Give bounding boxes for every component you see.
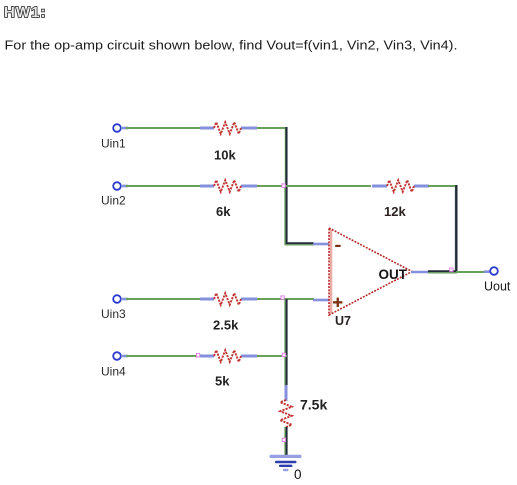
op-amp U7	[329, 228, 412, 315]
svg-text:2.5k: 2.5k	[213, 318, 239, 333]
ground symbol 0	[270, 455, 302, 471]
wire R2 through node A to R5	[257, 185, 371, 187]
pin stub non-inverting input	[313, 299, 329, 302]
junction node A	[282, 184, 285, 187]
value label 10k	[214, 148, 236, 163]
pin stub output	[411, 271, 429, 274]
svg-text:5k: 5k	[215, 374, 230, 389]
wire node B vertical down	[285, 299, 287, 385]
port Uout	[484, 267, 498, 275]
svg-text:10k: 10k	[214, 148, 236, 163]
port Uin4	[113, 352, 128, 360]
problem statement text	[5, 39, 458, 53]
value label 7.5k	[300, 397, 327, 413]
wire 7.5k to ground	[285, 427, 287, 456]
svg-text:For the op-amp circuit shown b: For the op-amp circuit shown below, find…	[5, 39, 458, 53]
wire Uin1 to R1	[126, 127, 201, 129]
op-amp minus mark	[335, 245, 340, 247]
svg-text:HW1:: HW1:	[4, 4, 47, 21]
resistor 7.5k (vertical)	[280, 385, 292, 427]
resistor 2.5k	[200, 293, 257, 305]
op-amp plus mark	[333, 298, 342, 307]
title HW1	[4, 4, 47, 21]
ground net label 0	[294, 467, 302, 482]
svg-text:7.5k: 7.5k	[300, 397, 327, 413]
junction node B	[281, 296, 284, 299]
resistor 6k	[200, 180, 257, 192]
label Uin3	[101, 307, 126, 321]
svg-text:0: 0	[294, 467, 302, 482]
wire Uin4 to R4	[126, 355, 199, 357]
wire Uin3 to R3	[126, 298, 201, 300]
value label 5k	[215, 374, 230, 389]
label Uin1	[101, 137, 126, 151]
wire node A vertical down to inverting branch	[285, 127, 287, 245]
wire output to feedback node	[428, 271, 457, 273]
svg-text:U7: U7	[335, 314, 351, 328]
svg-text:OUT: OUT	[379, 267, 408, 282]
svg-text:Uin3: Uin3	[101, 307, 126, 321]
port Uin2	[113, 182, 128, 190]
junction above ground	[282, 438, 285, 441]
svg-text:Uin4: Uin4	[101, 365, 126, 379]
value label 6k	[216, 204, 231, 219]
value label 2.5k	[213, 318, 239, 333]
wire R5 to feedback corner	[428, 185, 457, 187]
wire feedback vertical down to output node	[455, 185, 456, 272]
port Uin3	[113, 295, 128, 303]
junction wire end Uin4	[196, 354, 199, 357]
port Uin1	[113, 124, 128, 132]
wire output node to Uout	[456, 271, 485, 273]
resistor 5k	[200, 350, 257, 362]
svg-text:12k: 12k	[384, 204, 406, 219]
wire Uin2 to R2	[126, 185, 201, 187]
label Uin4	[101, 365, 126, 379]
junction node C	[282, 353, 285, 356]
svg-text:Uin2: Uin2	[101, 194, 126, 208]
label Uout	[484, 280, 511, 294]
junction output node	[450, 268, 453, 271]
wire R3 through node B to non-inverting input	[257, 298, 314, 300]
resistor 12k (feedback)	[372, 180, 429, 192]
op-amp reference U7	[335, 314, 351, 328]
pin stub inverting input	[313, 243, 329, 246]
wire R1 to node A	[257, 127, 287, 129]
op-amp OUT pin label	[379, 267, 408, 282]
wire node A corner to inverting input	[285, 243, 314, 245]
resistor 10k	[200, 122, 257, 134]
svg-text:Uin1: Uin1	[101, 137, 126, 151]
svg-text:6k: 6k	[216, 204, 231, 219]
svg-text:Uout: Uout	[484, 280, 511, 294]
label Uin2	[101, 194, 126, 208]
value label 12k	[384, 204, 406, 219]
wire R4 to node C	[257, 355, 287, 357]
